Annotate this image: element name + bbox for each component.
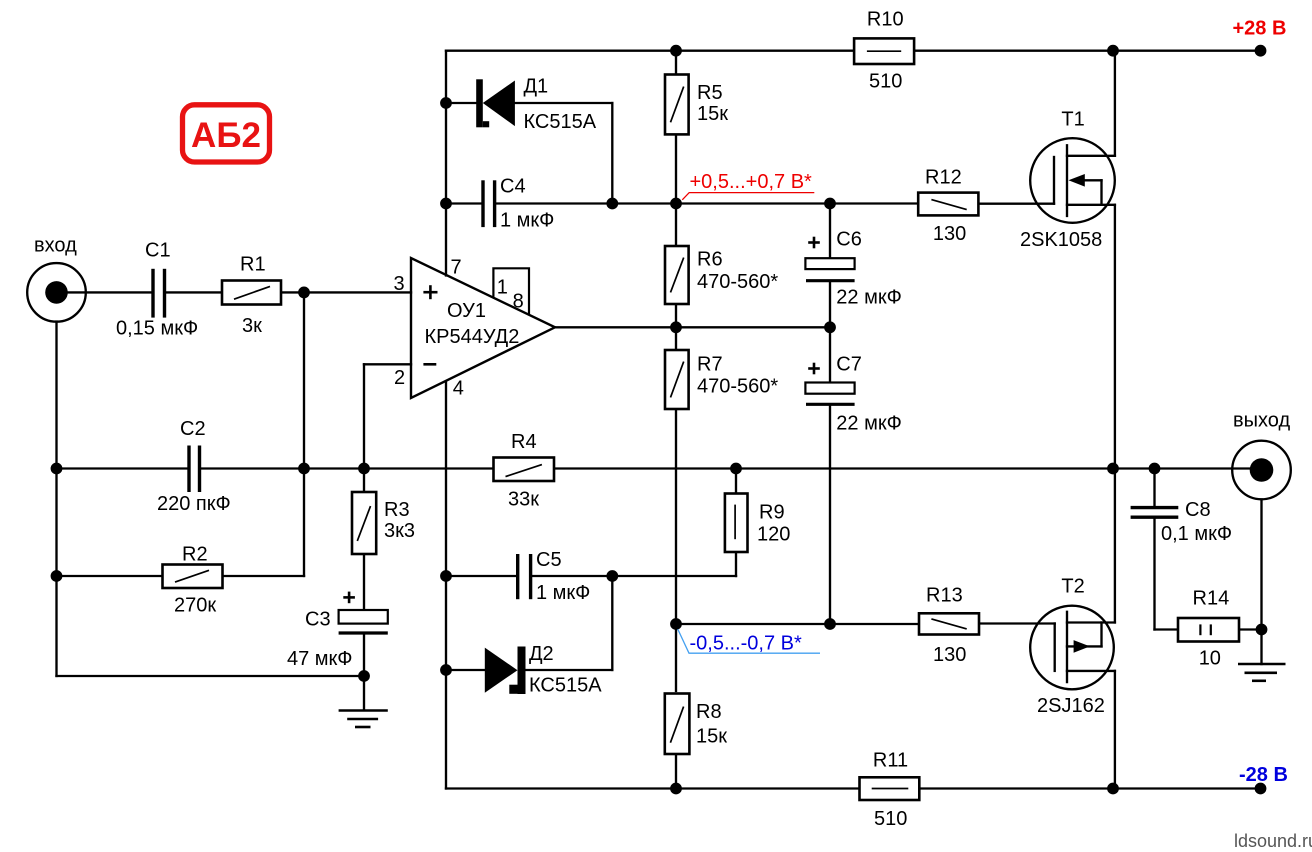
junction node 19 [440, 570, 452, 582]
capacitor C3 [339, 610, 388, 633]
ground symbol C3 [339, 711, 388, 728]
wire pin4 column lower [445, 670, 447, 789]
wire R2 right lead [223, 575, 305, 577]
zener diode D2 [485, 647, 526, 695]
resistor R11 [860, 777, 920, 800]
wire D1 anode lead [515, 102, 612, 104]
svg-text:R14: R14 [1193, 588, 1230, 610]
wire bottom rail to -28V [1113, 787, 1261, 789]
resistor R14 [1178, 618, 1239, 642]
svg-text:510: 510 [869, 71, 902, 93]
svg-text:вход: вход [34, 235, 77, 257]
wire R9 bottom riser [735, 552, 737, 576]
svg-text:1 мкФ: 1 мкФ [536, 582, 590, 604]
junction node 16 [1107, 463, 1119, 475]
svg-text:C3: C3 [305, 609, 331, 631]
svg-text:КР544УД2: КР544УД2 [425, 326, 520, 348]
junction node 8 [824, 198, 836, 210]
wire bottom rail left [446, 787, 676, 789]
svg-text:+28 В: +28 В [1233, 18, 1287, 40]
wire opamp output [555, 326, 830, 328]
blue bias annotation leader [678, 629, 820, 653]
wire C5 right lead [533, 575, 613, 577]
svg-text:КС515А: КС515А [524, 111, 597, 133]
junction node 25 [670, 783, 682, 795]
wire R13 to T2 gate [980, 622, 1055, 624]
wire main mid line to C8 node [1113, 467, 1155, 469]
capacitor C1 [153, 269, 165, 318]
svg-text:C2: C2 [180, 418, 206, 440]
wire R12 to T1 gate [980, 203, 1055, 205]
wire R9 top lead [735, 469, 737, 494]
ground symbol output [1238, 664, 1286, 681]
wire node to opamp pin3 [304, 291, 411, 293]
wire C4 left lead [446, 202, 482, 204]
svg-text:+0,5...+0,7 В*: +0,5...+0,7 В* [690, 171, 813, 193]
transistor T2 2SJ162 [1030, 606, 1115, 690]
wire main mid line to R4 [364, 467, 494, 469]
junction node 3 [1255, 45, 1267, 57]
svg-text:R13: R13 [926, 584, 963, 606]
junction node 1 [670, 45, 682, 57]
junction node 11 [298, 287, 310, 299]
wire input to C1 [57, 291, 152, 293]
wire C2 left lead [57, 467, 188, 469]
svg-text:470-560*: 470-560* [697, 271, 778, 293]
wire C6 top lead [829, 204, 831, 259]
wire top rail to +28V [1113, 50, 1261, 52]
wire R7 bottom long [675, 409, 677, 624]
svg-text:130: 130 [933, 644, 966, 666]
junction node 24 [824, 618, 836, 630]
svg-text:выход: выход [1233, 410, 1290, 432]
junction node 6 [606, 198, 618, 210]
resistor R6 [665, 246, 689, 304]
input connector [27, 263, 86, 322]
junction node 4 [440, 97, 452, 109]
resistor R7 [665, 350, 689, 409]
svg-text:Д1: Д1 [524, 75, 549, 97]
capacitor C4 [483, 180, 495, 227]
junction node 20 [606, 570, 618, 582]
wire node to R3 top [363, 469, 365, 493]
wire bottom rail right of R11 [920, 787, 1114, 789]
wire C1 to R1 [165, 291, 222, 293]
junction node 22 [358, 670, 370, 682]
wire ground node to ground [1260, 630, 1262, 665]
wire D2 cathode lead [526, 669, 613, 671]
junction node 9 [670, 321, 682, 333]
wire node to R6 top [675, 204, 677, 247]
resistor R4 [494, 458, 555, 482]
zener diode D1 [476, 79, 515, 127]
svg-text:0,1 мкФ: 0,1 мкФ [1161, 523, 1232, 545]
svg-text:R6: R6 [697, 249, 723, 271]
wire main mid line R9 node to T1T2 node [736, 467, 1113, 469]
svg-text:3к: 3к [242, 315, 262, 337]
capacitor C7 [805, 383, 854, 405]
junction node 21 [440, 664, 452, 676]
wire top rail right of R10 [914, 50, 1113, 52]
svg-text:C6: C6 [836, 228, 862, 250]
capacitor C2 [189, 446, 200, 493]
resistor R3 [352, 492, 376, 554]
svg-text:15к: 15к [697, 103, 728, 125]
wire pin7 column [445, 51, 447, 276]
wire T1 source drop [1114, 205, 1116, 469]
svg-text:130: 130 [933, 223, 966, 245]
wire D1 cathode lead [446, 102, 476, 104]
svg-text:АБ2: АБ2 [191, 116, 261, 155]
C6 plus sign [808, 237, 820, 249]
junction node 7 [670, 198, 682, 210]
svg-text:22 мкФ: 22 мкФ [836, 413, 902, 435]
svg-text:T2: T2 [1061, 576, 1084, 598]
svg-text:2SK1058: 2SK1058 [1020, 229, 1102, 251]
junction node 12 [51, 463, 63, 475]
svg-text:R7: R7 [697, 353, 723, 375]
resistor R10 [854, 38, 914, 64]
svg-text:C1: C1 [145, 240, 171, 262]
resistor R12 [918, 193, 978, 216]
resistor R8 [665, 694, 690, 755]
resistor R13 [919, 613, 979, 634]
svg-text:R12: R12 [925, 166, 962, 188]
junction node 28 [1256, 624, 1268, 636]
wire R6 bottom to output node [675, 304, 677, 327]
capacitor C6 [805, 258, 854, 281]
wire C7 bottom lead long [829, 405, 831, 624]
svg-text:R10: R10 [867, 9, 904, 31]
svg-text:2SJ162: 2SJ162 [1037, 695, 1105, 717]
junction node 13 [298, 463, 310, 475]
junction node 2 [1107, 45, 1119, 57]
wire output connector drop [1260, 500, 1262, 630]
capacitor C8 [1131, 508, 1179, 518]
wire C5 left lead [446, 575, 516, 577]
svg-text:R2: R2 [182, 543, 208, 565]
resistor R5 [665, 75, 689, 135]
wire C5 to R9 bottom [612, 575, 736, 577]
svg-text:4: 4 [453, 378, 464, 400]
wire gate+ line C4 to R5 column [612, 202, 676, 204]
wire pin2 drop [363, 364, 365, 468]
svg-text:22 мкФ: 22 мкФ [836, 286, 902, 308]
wire pin4 column mid [445, 576, 447, 670]
svg-text:220 пкФ: 220 пкФ [157, 493, 231, 515]
wire C7 top lead [829, 327, 831, 382]
svg-text:C8: C8 [1185, 499, 1211, 521]
red bias annotation leader [682, 193, 814, 200]
wire C8 to R14 [1155, 628, 1179, 630]
junction node 5 [440, 198, 452, 210]
wire R1 to node [281, 291, 304, 293]
svg-text:R9: R9 [759, 502, 785, 524]
pins 1 8 box [493, 268, 529, 314]
capacitor C5 [518, 554, 531, 599]
resistor R9 [725, 494, 748, 553]
AB2 stamp box [183, 105, 270, 162]
wire R5 top [675, 51, 677, 75]
junction node 26 [1107, 783, 1119, 795]
junction node 17 [1149, 463, 1161, 475]
svg-text:R4: R4 [511, 431, 537, 453]
op-amp U1 triangle [411, 258, 555, 398]
svg-text:120: 120 [757, 524, 790, 546]
svg-text:C4: C4 [500, 175, 526, 197]
output connector [1232, 441, 1291, 500]
op-amp minus input mark [423, 363, 436, 366]
svg-text:270к: 270к [174, 595, 216, 617]
svg-text:C5: C5 [536, 549, 562, 571]
resistor R1 [222, 281, 281, 305]
wire top rail mid segment [676, 50, 854, 52]
svg-text:510: 510 [874, 808, 907, 830]
wire C8 top lead [1153, 469, 1155, 506]
wire R5 bottom to node [675, 134, 677, 203]
op-amp plus input mark [423, 285, 437, 299]
wire pin4 column upper [445, 382, 447, 577]
wire main mid line C2 to R3 node [304, 467, 364, 469]
svg-text:R3: R3 [384, 499, 410, 521]
svg-text:R5: R5 [697, 82, 723, 104]
wire T1 drain riser [1114, 51, 1116, 156]
svg-text:R11: R11 [873, 750, 908, 772]
wire gate- line node to R13 [676, 623, 919, 625]
wire D1 branch vertical [611, 103, 613, 204]
svg-text:R8: R8 [696, 701, 722, 723]
resistor R2 [163, 565, 223, 589]
wire R8 bottom [675, 753, 677, 789]
svg-text:3: 3 [394, 273, 405, 295]
wire C3 bottom to node [363, 634, 365, 676]
wire C6 bottom lead [829, 282, 831, 328]
svg-text:ОУ1: ОУ1 [447, 300, 486, 322]
svg-text:10: 10 [1199, 647, 1221, 669]
wire R2 riser [303, 469, 305, 577]
svg-text:1: 1 [497, 277, 508, 299]
wire main mid line to output [1155, 467, 1262, 469]
svg-text:47 мкФ: 47 мкФ [287, 648, 353, 670]
wire gate+ line to R12 [830, 202, 919, 204]
wire C3 node to ground [363, 676, 365, 710]
svg-text:15к: 15к [696, 725, 727, 747]
C3 plus sign [343, 592, 355, 604]
svg-text:ldsound.ru: ldsound.ru [1234, 831, 1312, 851]
svg-text:КС515А: КС515А [529, 675, 602, 697]
junction node 27 [1255, 783, 1267, 795]
wire bottom left horizontal [57, 675, 365, 677]
svg-text:7: 7 [451, 257, 462, 279]
wire input column [55, 322, 57, 677]
wire main mid line R4 to R9 node [554, 467, 736, 469]
wire bottom rail mid [676, 787, 860, 789]
wire T2 drain drop [1114, 671, 1116, 789]
svg-text:C7: C7 [836, 353, 862, 375]
svg-text:-28 В: -28 В [1239, 764, 1288, 786]
junction node 18 [51, 570, 63, 582]
transistor T1 2SK1058 [1030, 138, 1115, 223]
wire D2 anode lead [446, 669, 485, 671]
svg-text:3к3: 3к3 [384, 520, 415, 542]
wire C8 bottom lead [1153, 519, 1155, 630]
wire top rail left segment [446, 50, 676, 52]
wire C2 right lead [201, 467, 304, 469]
C7 plus sign [808, 363, 820, 375]
svg-text:-0,5...-0,7 В*: -0,5...-0,7 В* [690, 632, 802, 654]
wire T2 source riser [1114, 469, 1116, 623]
wire pin3 node down [303, 292, 305, 468]
junction node 14 [358, 463, 370, 475]
wire pin2 horizontal [364, 363, 411, 365]
svg-text:33к: 33к [508, 488, 539, 510]
wire D2 branch vertical [611, 576, 613, 670]
svg-text:0,15 мкФ: 0,15 мкФ [116, 317, 198, 339]
svg-text:R1: R1 [240, 254, 266, 276]
wire gate+ line to C6 node [676, 202, 830, 204]
wire R14 to ground node [1239, 628, 1262, 630]
svg-text:8: 8 [513, 291, 524, 313]
wire C4 right lead [496, 202, 613, 204]
wire R2 left lead [57, 575, 163, 577]
junction node 23 [670, 618, 682, 630]
svg-text:T1: T1 [1061, 109, 1084, 131]
svg-text:Д2: Д2 [529, 643, 554, 665]
wire R3 bottom to C3 [363, 554, 365, 610]
svg-text:2: 2 [394, 367, 405, 389]
junction node 10 [824, 321, 836, 333]
wire output node to R7 top [675, 327, 677, 350]
svg-text:470-560*: 470-560* [697, 375, 778, 397]
junction node 15 [730, 463, 742, 475]
svg-text:1 мкФ: 1 мкФ [500, 210, 554, 232]
wire node to R8 top [675, 624, 677, 691]
